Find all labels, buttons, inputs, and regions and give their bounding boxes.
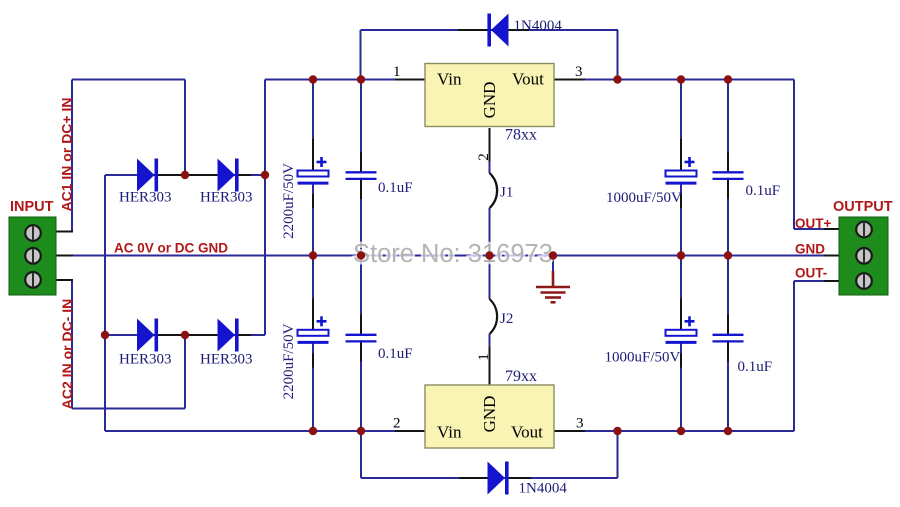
svg-text:AC1 IN or DC+ IN: AC1 IN or DC+ IN: [59, 98, 75, 212]
svg-text:1000uF/50V: 1000uF/50V: [605, 350, 681, 366]
svg-text:1N4004: 1N4004: [514, 18, 563, 34]
svg-text:Vin: Vin: [437, 423, 462, 442]
svg-text:0.1uF: 0.1uF: [378, 180, 413, 196]
svg-text:HER303: HER303: [119, 352, 172, 368]
svg-text:0.1uF: 0.1uF: [738, 359, 773, 375]
svg-text:OUT+: OUT+: [795, 216, 831, 231]
svg-text:2: 2: [393, 416, 401, 432]
svg-text:Store No: 316973: Store No: 316973: [353, 240, 553, 268]
svg-text:J2: J2: [500, 311, 513, 327]
svg-text:OUTPUT: OUTPUT: [833, 199, 893, 215]
svg-text:1: 1: [393, 64, 401, 80]
svg-text:1000uF/50V: 1000uF/50V: [606, 190, 682, 206]
svg-text:1N4004: 1N4004: [519, 481, 568, 497]
svg-text:HER303: HER303: [200, 190, 253, 206]
svg-text:0.1uF: 0.1uF: [746, 183, 781, 199]
svg-text:2: 2: [476, 153, 492, 161]
svg-text:GND: GND: [480, 396, 499, 433]
svg-text:AC2 IN or DC- IN: AC2 IN or DC- IN: [59, 299, 75, 409]
svg-text:HER303: HER303: [200, 352, 253, 368]
svg-text:2200uF/50V: 2200uF/50V: [281, 163, 297, 239]
svg-text:OUT-: OUT-: [795, 266, 827, 281]
svg-text:79xx: 79xx: [505, 368, 537, 385]
svg-text:AC 0V or DC GND: AC 0V or DC GND: [114, 241, 228, 256]
svg-text:Vin: Vin: [437, 70, 462, 89]
svg-text:J1: J1: [500, 185, 513, 201]
svg-text:3: 3: [576, 416, 584, 432]
svg-text:GND: GND: [480, 82, 499, 119]
svg-text:Vout: Vout: [512, 70, 544, 89]
svg-text:3: 3: [575, 64, 583, 80]
svg-text:2200uF/50V: 2200uF/50V: [281, 323, 297, 399]
svg-text:INPUT: INPUT: [10, 199, 54, 215]
svg-text:GND: GND: [795, 242, 825, 257]
svg-text:1: 1: [476, 353, 492, 361]
svg-text:Vout: Vout: [511, 423, 543, 442]
svg-text:78xx: 78xx: [505, 127, 537, 144]
svg-text:0.1uF: 0.1uF: [378, 346, 413, 362]
svg-text:HER303: HER303: [119, 190, 172, 206]
